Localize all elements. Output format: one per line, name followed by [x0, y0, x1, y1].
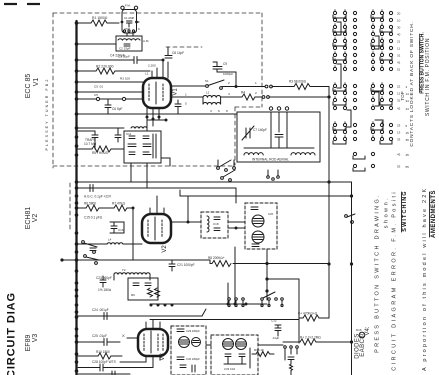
switch S3 contacts	[82, 241, 99, 265]
svg-text:51: 51	[397, 68, 401, 72]
svg-text:35: 35	[406, 138, 410, 142]
resistor R2 270k	[78, 65, 150, 75]
svg-text:F.M.: F.M.	[125, 4, 131, 8]
FM aerial input unit	[121, 4, 140, 34]
T2 secondary network	[128, 278, 160, 300]
wire branch right	[267, 279, 299, 343]
svg-text:C32: C32	[271, 319, 277, 323]
svg-text:V1: V1	[173, 88, 179, 96]
svg-text:K: K	[138, 27, 140, 31]
wire long AGC line	[78, 181, 352, 183]
svg-text:C25 .01μF: C25 .01μF	[92, 334, 107, 338]
tube V1 label ECC 85	[25, 74, 40, 99]
capacitor C6	[105, 99, 123, 114]
resistor R8 200k on line	[208, 256, 329, 267]
svg-text:11: 11	[397, 47, 400, 51]
capacitor C28	[78, 356, 160, 375]
press button switch grid contacts	[333, 11, 392, 167]
label TOP	[400, 91, 405, 100]
svg-text:C1 AMP: C1 AMP	[124, 16, 134, 20]
svg-text:T2: T2	[122, 268, 126, 272]
oscillator coil box dashed	[201, 212, 228, 238]
svg-text:15: 15	[406, 131, 410, 135]
svg-text:2. CIRCUIT DIAGRAM ERROR. F.M.: 2. CIRCUIT DIAGRAM ERROR. F.M. Positi	[392, 190, 398, 375]
resistor R6	[78, 202, 114, 212]
node dots under V1	[146, 59, 168, 122]
wire long line to switch grid	[180, 190, 352, 196]
wire line to oscillator	[78, 185, 236, 204]
wire T4 to diode cluster	[258, 344, 283, 346]
svg-text:C7 140pF: C7 140pF	[253, 128, 267, 132]
capacitor C32	[271, 319, 284, 341]
capacitor C23	[96, 276, 112, 292]
svg-text:A.G.C. 0.1μF +22V: A.G.C. 0.1μF +22V	[84, 195, 112, 199]
svg-text:34: 34	[406, 99, 410, 103]
capacitor C10 at V1	[175, 100, 181, 114]
dashed tuner enclosure	[53, 13, 262, 232]
svg-text:C33 C34: C33 C34	[224, 367, 235, 371]
svg-text:C5: C5	[94, 93, 98, 97]
svg-text:ECC 85: ECC 85	[25, 74, 32, 99]
svg-text:L2: L2	[206, 91, 210, 95]
label row	[84, 216, 103, 220]
oscillator coil contents	[207, 216, 220, 232]
IF transformer T1 10.7Mc traps	[124, 127, 161, 163]
svg-text:.01μF: .01μF	[272, 336, 279, 340]
svg-text:C24 .001μF: C24 .001μF	[92, 308, 109, 312]
wires T1 to band switch	[131, 158, 170, 188]
svg-text:44: 44	[406, 107, 410, 111]
svg-text:1000pF: 1000pF	[223, 72, 233, 76]
svg-text:TOP: TOP	[400, 91, 405, 100]
svg-text:1. A proportion of this model: 1. A proportion of this model will have …	[422, 187, 428, 375]
coil L4	[78, 238, 142, 245]
transformer contents	[251, 207, 274, 247]
svg-text:42: 42	[397, 107, 401, 111]
svg-text:C2 15pF: C2 15pF	[119, 47, 131, 51]
press button header text	[409, 21, 431, 146]
svg-text:31: 31	[397, 54, 401, 58]
svg-text:R+ 2.2+2.2MΩ: R+ 2.2+2.2MΩ	[300, 336, 321, 340]
svg-text:EF89: EF89	[25, 335, 32, 352]
svg-text:8: 8	[226, 109, 228, 113]
svg-text:CONTACTS LOOKED AT BACK OF SWI: CONTACTS LOOKED AT BACK OF SWITCH.	[409, 21, 415, 146]
svg-text:EABC80: EABC80	[360, 331, 366, 357]
svg-text:C16: C16	[118, 228, 124, 232]
wire right trunk vertical	[328, 87, 330, 319]
wire bus to C2 box	[78, 43, 116, 45]
svg-text:5: 5	[185, 102, 187, 106]
svg-text:R2 270,000: R2 270,000	[96, 65, 114, 69]
svg-text:AMENDMENTS: AMENDMENTS	[431, 190, 437, 238]
svg-text:X: X	[122, 333, 125, 338]
svg-text:V1: V1	[33, 78, 40, 87]
svg-text:3: 3	[210, 109, 212, 113]
wire V1 heater pins	[152, 68, 157, 78]
node X mark	[122, 333, 138, 338]
svg-text:PRESS BUTTON SWITCH DRAWING.: PRESS BUTTON SWITCH DRAWING.	[375, 193, 381, 353]
capacitor C24	[92, 308, 109, 320]
svg-text:INTERNAL ROD AERIAL: INTERNAL ROD AERIAL	[252, 158, 289, 162]
capacitor C9 1000pF	[213, 62, 238, 88]
svg-text:21: 21	[397, 40, 401, 44]
svg-text:C23 560pF: C23 560pF	[96, 276, 112, 280]
trap labels	[84, 138, 97, 146]
resistor R10	[78, 350, 122, 359]
svg-text:V3: V3	[160, 353, 166, 361]
svg-text:DIODES: DIODES	[355, 333, 361, 358]
T4 contents	[223, 339, 251, 372]
svg-text:V3: V3	[32, 334, 39, 343]
svg-text:L4: L4	[108, 238, 112, 242]
misc value labels tuner	[94, 55, 257, 114]
svg-text:C9: C9	[223, 62, 227, 66]
wire bus to internal aerial box	[78, 113, 237, 115]
node dots on right wire	[350, 194, 353, 343]
node dots row	[150, 304, 174, 307]
svg-text:PLESSEY TUNER FB2: PLESSEY TUNER FB2	[45, 78, 49, 151]
capacitor C8 14pF	[165, 47, 184, 78]
svg-text:V2: V2	[32, 214, 39, 223]
svg-text:55: 55	[406, 165, 410, 169]
svg-text:SWITCH IN F.M. POSITION: SWITCH IN F.M. POSITION	[425, 38, 431, 116]
resistor R7	[112, 202, 135, 261]
switch pole numbers second column	[406, 85, 410, 169]
capacitor C12	[78, 131, 98, 149]
wire verticals mid	[228, 247, 235, 304]
terminal D16	[356, 328, 365, 338]
amendments notes	[375, 187, 438, 375]
svg-text:43: 43	[397, 153, 401, 157]
tube V3 label EF89	[25, 334, 39, 352]
title CIRCUIT DIAG	[6, 292, 18, 375]
resistor R5	[78, 146, 124, 155]
wire bus to V3 stage	[78, 309, 206, 316]
label V4 EABC80 diodes	[355, 326, 372, 359]
wire V2 to osc box	[171, 196, 245, 230]
heptode V2 ECH81	[142, 214, 171, 243]
wire right vertical to detector	[351, 182, 353, 375]
svg-text:R8 200KΩ+: R8 200KΩ+	[208, 256, 225, 260]
svg-text:C8 14pF: C8 14pF	[172, 51, 184, 55]
switch grid contact numbers	[397, 12, 401, 169]
capacitor C4 220pF	[78, 54, 163, 79]
svg-text:2: 2	[228, 81, 230, 85]
svg-text:ECH81: ECH81	[25, 207, 32, 230]
svg-text:V2: V2	[162, 245, 168, 253]
svg-text:L1: L1	[145, 72, 149, 76]
svg-text:S1: S1	[205, 79, 209, 83]
capacitor C25	[78, 334, 120, 346]
svg-text:41: 41	[397, 61, 401, 65]
svg-text:R15 1K: R15 1K	[254, 348, 264, 352]
switch grid contact stubs	[335, 10, 382, 138]
resistor R1 1500 ohm	[78, 16, 119, 26]
aerial coupling coil box C2	[116, 33, 149, 51]
T3 contents	[177, 329, 201, 372]
resistor R15	[252, 348, 274, 357]
wire T3 to T4	[206, 344, 211, 346]
svg-text:C20: C20	[268, 212, 274, 216]
svg-text:C3 30pF: C3 30pF	[118, 55, 130, 59]
svg-text:C+ 470KΩ+Ω: C+ 470KΩ+Ω	[298, 312, 318, 316]
capacitor C13	[78, 128, 124, 142]
diode detector cluster	[284, 346, 299, 375]
svg-text:13: 13	[397, 131, 401, 135]
IF transformer T3 dashed box	[171, 326, 206, 375]
oscillator transformer box dashed	[245, 203, 277, 249]
tube V2 label ECH81	[25, 207, 39, 230]
IF transformer T2 coil	[114, 268, 150, 280]
registration marks top left	[4, 3, 40, 5]
svg-text:C15 0.1 μFΩ: C15 0.1 μFΩ	[84, 216, 103, 220]
svg-text:C30 180pF: C30 180pF	[186, 357, 200, 361]
label AGC	[84, 195, 112, 199]
svg-text:14: 14	[406, 92, 410, 96]
svg-text:R10 1500: R10 1500	[96, 350, 110, 354]
wire coil to trunk with resistor R4	[171, 91, 329, 101]
svg-text:23: 23	[397, 124, 401, 128]
svg-text:6: 6	[218, 109, 220, 113]
svg-text:4: 4	[228, 92, 230, 96]
wire HT bus (main vertical rail)	[75, 21, 77, 375]
switch S5 on detector line	[345, 214, 355, 223]
resistor R14 470k	[298, 312, 329, 322]
svg-text:1: 1	[185, 93, 187, 97]
svg-text:10: 10	[397, 19, 401, 23]
band switch contacts S2	[217, 160, 236, 181]
svg-text:C21 1000pF: C21 1000pF	[177, 263, 195, 267]
contact row terminals	[267, 170, 280, 180]
junction dots on bus	[75, 21, 79, 373]
svg-text:R7 47KΩ: R7 47KΩ	[112, 202, 126, 206]
detector transformer T4 dashed box	[211, 335, 258, 375]
svg-text:45: 45	[406, 153, 410, 157]
triode V1 ECC85	[143, 78, 171, 108]
wire V1 bottom pins to T1	[147, 108, 166, 131]
coil L2 oscillator	[203, 91, 221, 105]
svg-text:2,200: 2,200	[148, 64, 156, 68]
wire bus to V1 pin with terminals	[78, 93, 143, 101]
switch S4 contacts row	[228, 292, 284, 307]
svg-text:R4: R4	[241, 91, 245, 95]
resistor R17 2.2M	[283, 336, 352, 346]
svg-text:C6 5pF: C6 5pF	[112, 107, 123, 111]
svg-text:R3 68,000Ω: R3 68,000Ω	[289, 80, 307, 84]
svg-text:shown.: shown.	[384, 196, 390, 228]
svg-text:SWITCHING: SWITCHING	[402, 190, 408, 231]
svg-text:R5 THOUS: R5 THOUS	[92, 151, 108, 155]
wire bus to V1 grid	[78, 81, 143, 83]
capacitor C16 network	[110, 222, 124, 233]
svg-text:R1 1500Ω: R1 1500Ω	[92, 16, 108, 20]
wire main AM line	[60, 258, 210, 261]
internal rod aerial unit	[237, 107, 320, 162]
svg-text:1% 180Ω: 1% 180Ω	[98, 288, 112, 292]
svg-text:22: 22	[397, 85, 401, 89]
svg-text:1: 1	[255, 81, 257, 85]
svg-text:C18: C18	[213, 222, 219, 226]
wire plate line to trunk with resistor R3 68000	[222, 80, 329, 90]
svg-text:2: 2	[255, 91, 257, 95]
svg-text:20: 20	[397, 12, 401, 16]
svg-text:40: 40	[397, 33, 401, 37]
svg-text:A.M.: A.M.	[143, 39, 149, 43]
svg-text:53: 53	[397, 165, 401, 169]
svg-text:R9: R9	[131, 293, 135, 297]
node trunk junctions	[327, 95, 330, 265]
svg-text:R6 5800: R6 5800	[84, 202, 96, 206]
capacitor C21	[169, 260, 195, 271]
svg-text:CIRCUIT DIAG: CIRCUIT DIAG	[6, 292, 18, 375]
wire AVC line lower	[150, 319, 299, 321]
svg-text:C29 180pF: C29 180pF	[186, 329, 200, 333]
svg-text:C11: C11	[126, 132, 132, 136]
wire bus to V1 cathode	[78, 91, 143, 93]
svg-text:33: 33	[397, 138, 401, 142]
svg-text:C5 .01: C5 .01	[94, 85, 103, 89]
wire detector line	[150, 303, 267, 306]
pentode V3 EF89	[138, 329, 168, 356]
svg-text:C28 100pF WTS: C28 100pF WTS	[92, 360, 116, 364]
Plessey tuner label	[45, 78, 49, 151]
switch S1 (FM/AM)	[171, 79, 224, 89]
svg-text:30: 30	[397, 26, 401, 30]
svg-text:R3 100: R3 100	[120, 77, 130, 81]
wire osc box down	[265, 249, 268, 300]
switch grid link straps	[333, 15, 392, 171]
